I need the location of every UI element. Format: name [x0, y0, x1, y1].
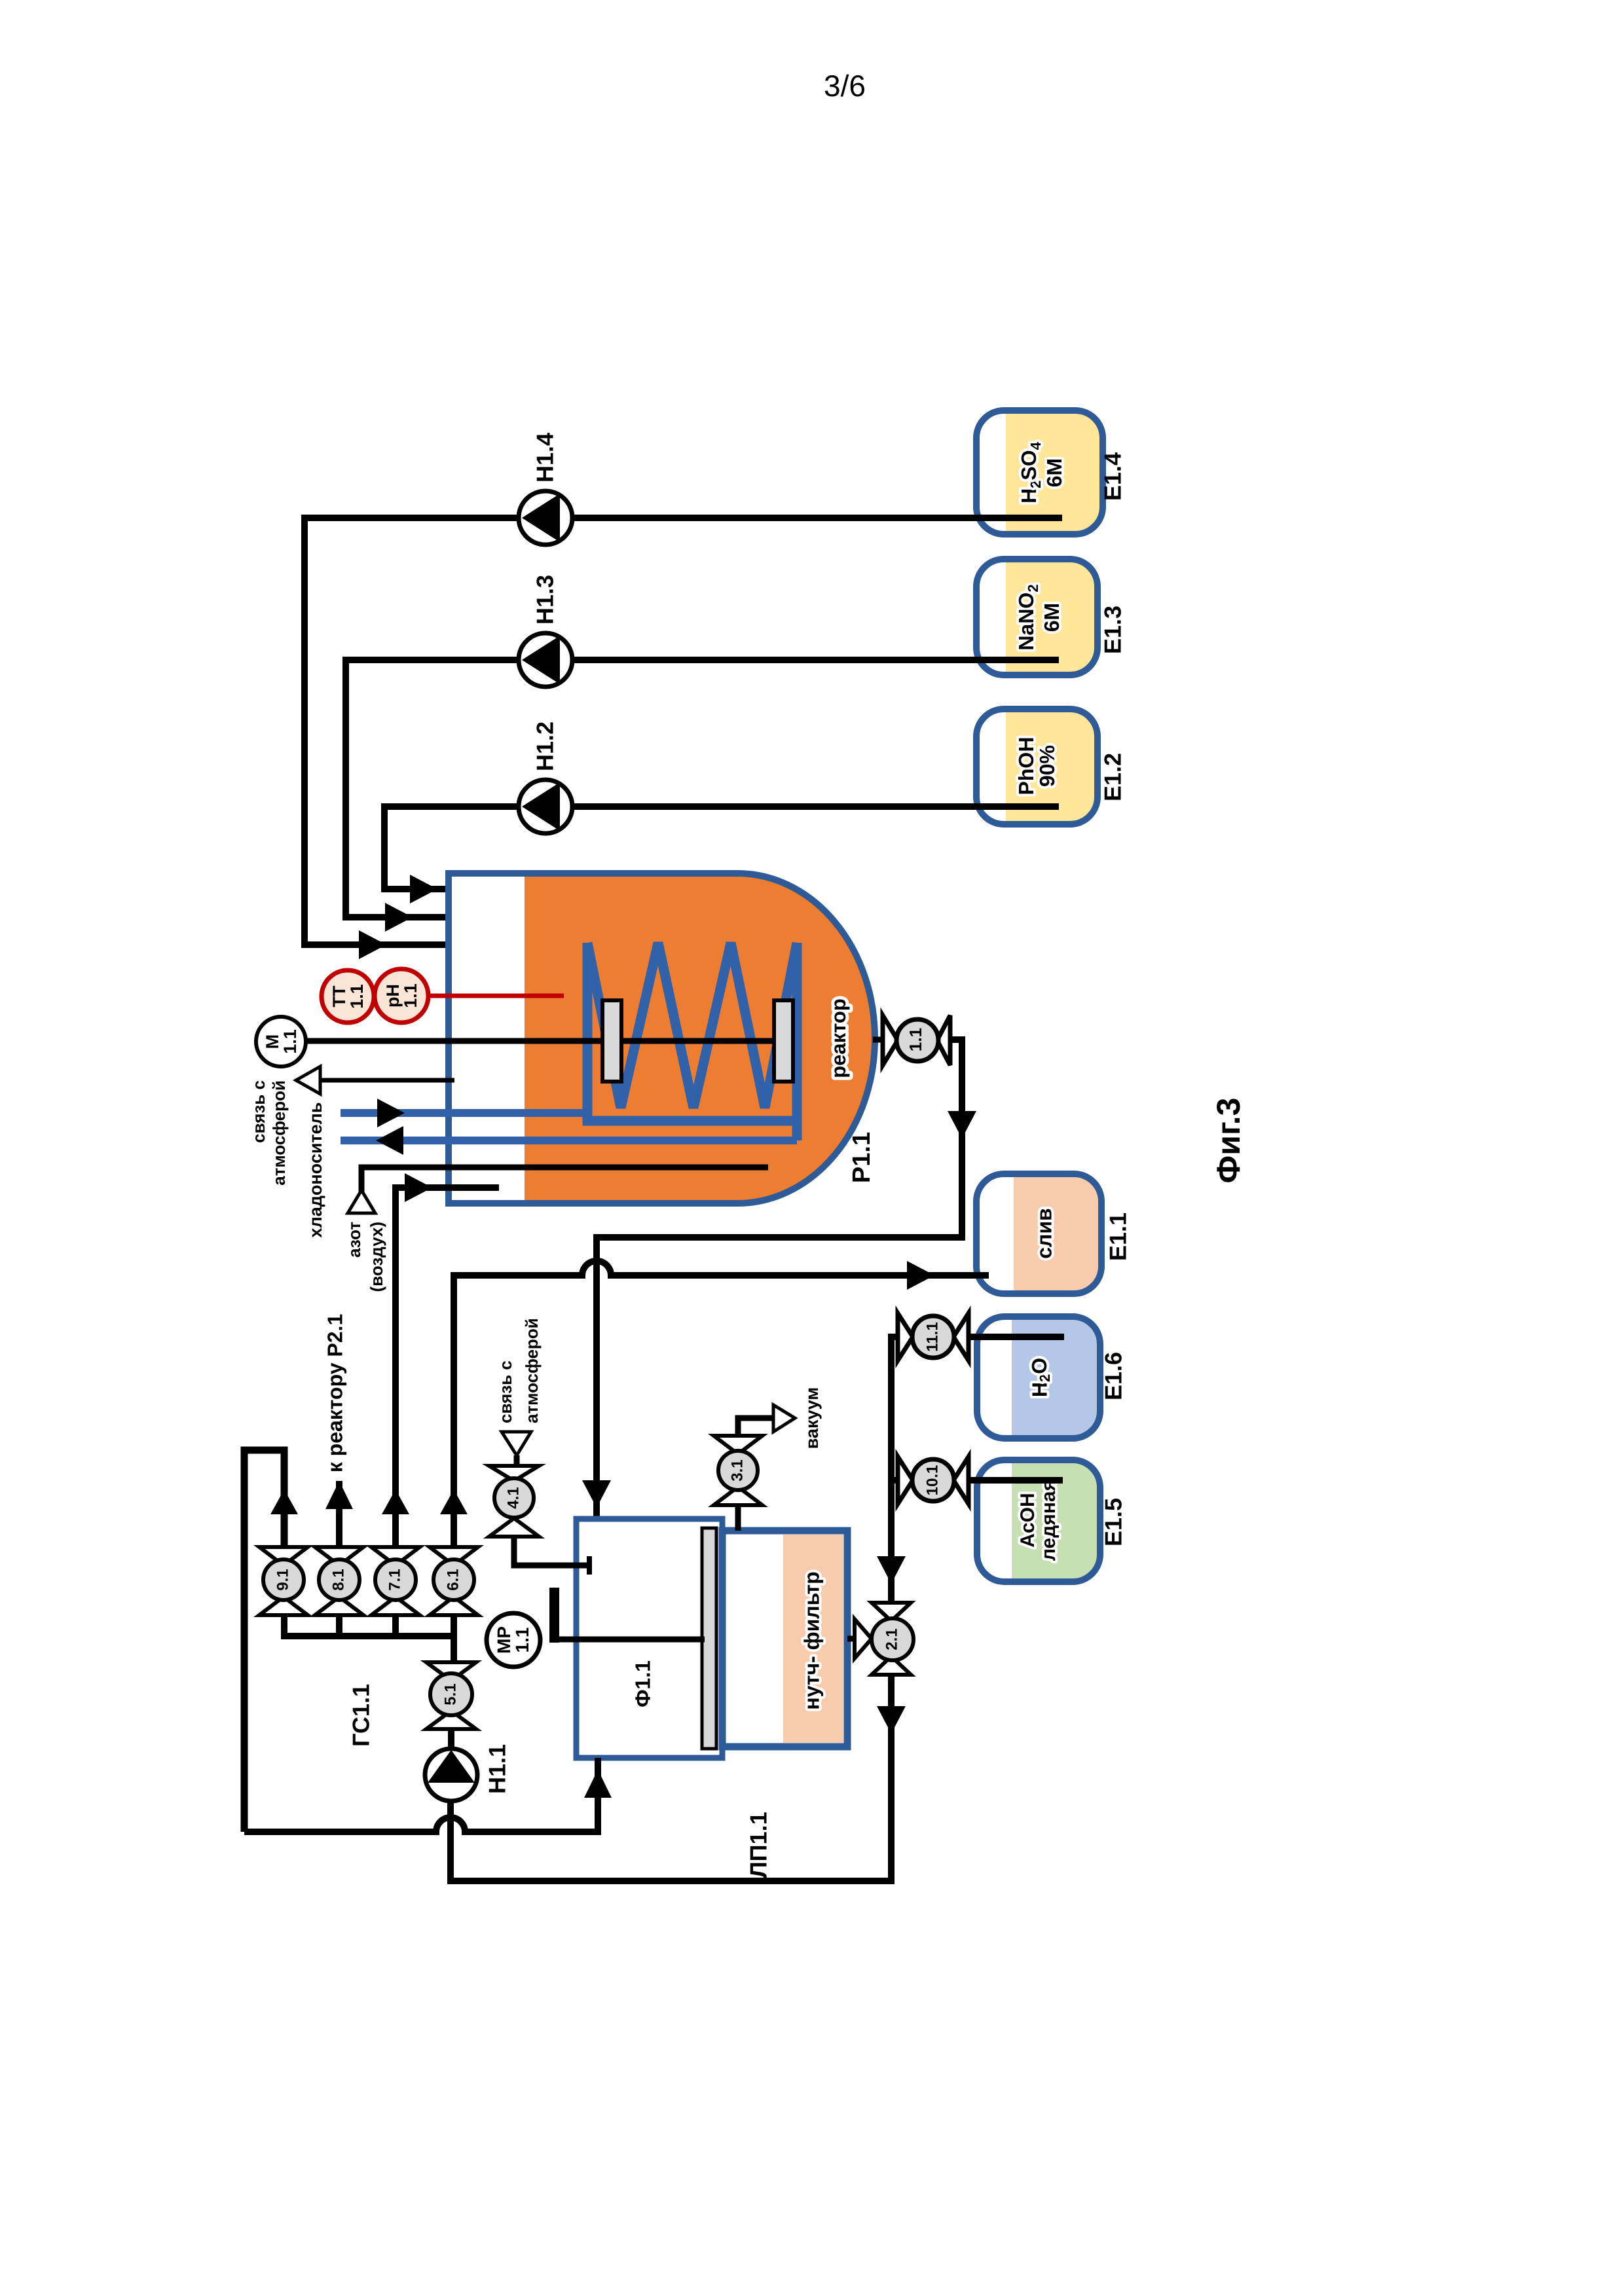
wire stub 7.1 to manifold: [392, 1615, 399, 1636]
vent line связь с атмосферой (reactor): [320, 1078, 454, 1083]
feed pipe riser bar: [549, 1588, 559, 1643]
wire слив line from valve 6.1 riser to tank E1.1: [454, 1261, 989, 1547]
coolant outlet line: [341, 1137, 797, 1144]
svg-text:E1.3: E1.3: [1099, 606, 1126, 654]
arrow down into filter: [582, 1480, 611, 1508]
wire pipe from tank E1.4 through pump H1.4 to reactor inlet: [304, 518, 1062, 945]
pump H1.1: [425, 1744, 511, 1801]
svg-text:нутч- фильтр: нутч- фильтр: [800, 1571, 823, 1709]
svg-text:хладоноситель: хладоноситель: [306, 1102, 325, 1238]
svg-text:11.1: 11.1: [923, 1322, 941, 1351]
svg-text:10.1: 10.1: [923, 1465, 941, 1496]
arrow down on header below 2.1: [877, 1706, 906, 1734]
nutsch filter vessel Ф1.1: [576, 1519, 722, 1758]
valve 6.1: [430, 1547, 478, 1615]
valve 5.1: [426, 1662, 476, 1729]
valve 2.1 (three way filter drain): [847, 1603, 913, 1675]
stirrer blade left: [602, 1000, 621, 1082]
svg-text:H1.3: H1.3: [532, 575, 559, 625]
wire pipe from tank E1.3 through pump H1.3 to reactor inlet: [346, 660, 1059, 917]
wire AcOH line with valve 10.1: [969, 1477, 1063, 1484]
svg-text:к реактору Р2.1: к реактору Р2.1: [323, 1314, 346, 1473]
arrow down on drain vertical: [948, 1111, 976, 1139]
coolant outlet arrow: [376, 1126, 403, 1155]
svg-text:атмосферой: атмосферой: [269, 1080, 289, 1186]
svg-text:1.1: 1.1: [906, 1028, 925, 1051]
tank E1.3: [976, 559, 1126, 675]
feed pipe inside filter: [558, 1637, 705, 1643]
svg-text:2.1: 2.1: [883, 1628, 900, 1650]
pump H1.3: [519, 575, 572, 687]
stirrer blade right: [774, 1000, 793, 1082]
svg-text:слив: слив: [1032, 1208, 1056, 1258]
svg-text:6.1: 6.1: [444, 1569, 462, 1590]
reactor P1.1 vessel: [449, 873, 875, 1203]
svg-text:ЛП1.1: ЛП1.1: [745, 1812, 772, 1878]
svg-text:ТТ1.1: ТТ1.1: [329, 984, 367, 1009]
arrow on gas line: [405, 1173, 432, 1202]
stirrer shaft: [305, 1038, 793, 1044]
svg-text:связь с: связь с: [249, 1080, 268, 1143]
svg-text:ГС1.1: ГС1.1: [348, 1684, 375, 1747]
svg-text:E1.5: E1.5: [1100, 1498, 1127, 1546]
valve 9.1: [259, 1547, 308, 1615]
end tick: [587, 1556, 592, 1575]
open arrow вакуум: [773, 1405, 795, 1432]
wire drain from valve 1.1 to filter: [597, 1040, 962, 1516]
nitrogen inlet open arrow: [348, 1190, 375, 1213]
tank E1.2: [976, 709, 1126, 824]
svg-text:рН1.1: рН1.1: [383, 983, 420, 1008]
wire red sensor line: [428, 994, 564, 998]
instrument pH1.1: [375, 969, 428, 1023]
svg-text:связь с: связь с: [496, 1360, 515, 1423]
wire H2O line with valve 11.1: [969, 1334, 1064, 1340]
svg-text:Р1.1: Р1.1: [848, 1132, 876, 1183]
svg-text:(воздух): (воздух): [367, 1222, 386, 1292]
svg-text:9.1: 9.1: [274, 1569, 291, 1590]
svg-text:H1.2: H1.2: [532, 721, 559, 771]
arrow up к реактору: [325, 1481, 353, 1509]
open arrow to atmosphere: [296, 1066, 320, 1094]
wire arrow into reactor inlet 2: [385, 903, 413, 932]
wire 5.1 to pump H1.1: [448, 1729, 454, 1755]
wire arrow into reactor inlet 1: [410, 875, 437, 903]
wire manifold under valves: [284, 1615, 454, 1636]
valve 4.1: [489, 1466, 539, 1537]
pump H1.4: [519, 433, 572, 545]
instrument MP1.1: [487, 1613, 540, 1667]
svg-text:вакуум: вакуум: [802, 1387, 822, 1449]
svg-text:4.1: 4.1: [504, 1487, 522, 1508]
valve 11.1: [898, 1313, 969, 1360]
svg-text:МР1.1: МР1.1: [494, 1626, 532, 1654]
arrow up on 6.1 riser: [440, 1489, 468, 1514]
wire bottom loop to filter bottom: [244, 1758, 598, 1832]
svg-text:E1.1: E1.1: [1105, 1212, 1132, 1261]
valve 10.1: [898, 1457, 969, 1504]
svg-text:5.1: 5.1: [441, 1683, 459, 1705]
svg-text:Фиг.3: Фиг.3: [1210, 1098, 1247, 1184]
motor M1.1: [256, 1017, 306, 1066]
tank E1.1 слив: [976, 1174, 1132, 1294]
vacuum line with valve 3.1: [738, 1418, 773, 1531]
svg-text:8.1: 8.1: [329, 1569, 347, 1590]
pump H1.2: [519, 721, 572, 833]
svg-text:PhOH90%: PhOH90%: [1014, 737, 1059, 795]
tank E1.6 H2O: [977, 1317, 1127, 1438]
svg-text:атмосферой: атмосферой: [522, 1318, 542, 1423]
svg-text:3.1: 3.1: [728, 1459, 746, 1481]
arrow into tank E1.1: [907, 1261, 934, 1290]
gas line from valve 7.1 into reactor bottom: [396, 1188, 499, 1547]
svg-text:E1.4: E1.4: [1099, 452, 1126, 501]
svg-text:E1.2: E1.2: [1099, 753, 1126, 801]
valve 3.1: [714, 1436, 762, 1505]
arrow up into filter bottom: [584, 1770, 612, 1798]
atmosphere vent with valve 4.1: [514, 1537, 591, 1565]
wire 6.1 down to valve 5.1: [451, 1615, 457, 1664]
open arrow атмосфера (filter): [502, 1432, 531, 1455]
svg-text:H1.4: H1.4: [532, 433, 559, 483]
nutsch filter cake box: [722, 1531, 847, 1747]
valve 1.1 (reactor outlet): [873, 1015, 950, 1065]
valve 7.1: [371, 1547, 420, 1615]
valve 8.1: [315, 1547, 363, 1615]
filter plate: [702, 1528, 716, 1749]
wire stub 8.1 to manifold: [336, 1615, 342, 1636]
arrow up on 7.1 riser: [382, 1489, 409, 1514]
wire left return trunk: [244, 1450, 284, 1832]
arrow down on header above 2.1: [877, 1556, 906, 1584]
svg-text:реактор: реактор: [827, 998, 850, 1078]
tank E1.4: [976, 410, 1126, 534]
arrow up on 9.1 riser: [270, 1489, 298, 1514]
svg-text:7.1: 7.1: [386, 1569, 403, 1590]
tank E1.5 AcOH: [977, 1460, 1127, 1582]
coolant inlet line: [341, 1109, 587, 1117]
svg-text:E1.6: E1.6: [1100, 1352, 1127, 1400]
instrument TT1.1: [322, 970, 374, 1023]
svg-text:3/6: 3/6: [824, 69, 866, 103]
wire arrow into reactor inlet 3: [359, 930, 386, 959]
svg-text:азот: азот: [344, 1222, 364, 1258]
coolant inlet arrow: [377, 1099, 405, 1127]
cooling coil inside reactor: [587, 943, 797, 1140]
wire pipe from tank E1.2 through pump H1.2 to reactor inlet: [384, 807, 1059, 889]
nitrogen dip tube: [361, 1167, 768, 1192]
wire к реактору P2.1 line: [336, 1481, 342, 1547]
svg-text:Ф1.1: Ф1.1: [631, 1660, 654, 1707]
svg-text:Н1.1: Н1.1: [484, 1744, 511, 1794]
wire main wash header vertical: [451, 1337, 898, 1881]
